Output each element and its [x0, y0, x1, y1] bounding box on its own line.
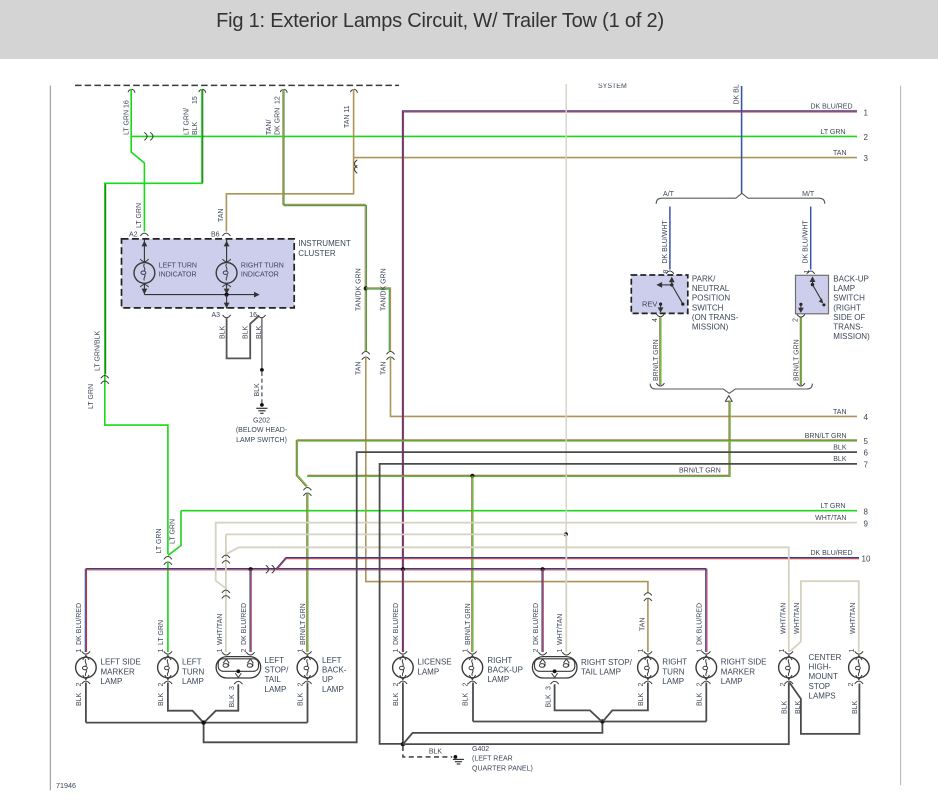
svg-text:LAMP: LAMP	[265, 685, 287, 694]
svg-text:DK BLU/RED: DK BLU/RED	[533, 603, 540, 645]
svg-text:LAMP: LAMP	[417, 667, 439, 676]
svg-text:TAN 11: TAN 11	[344, 105, 351, 128]
junction node on TAN/DK GRN	[364, 286, 368, 290]
svg-text:DK BL: DK BL	[734, 84, 741, 104]
svg-text:LT GRN/BLK: LT GRN/BLK	[94, 330, 101, 371]
svg-text:2: 2	[298, 683, 305, 687]
svg-text:TAN/: TAN/	[266, 120, 273, 135]
wire LT GRN to left turn lamp pin 1	[167, 562, 169, 652]
svg-text:1: 1	[158, 649, 165, 653]
wire DK BLU/WHT (A/T)	[669, 207, 671, 270]
back-up switch arm	[813, 285, 823, 302]
wire DK BLU/RED drop to left side marker	[84, 569, 86, 652]
svg-text:TAN: TAN	[356, 362, 363, 375]
svg-text:SWITCH: SWITCH	[833, 294, 865, 303]
svg-text:HIGH-: HIGH-	[809, 663, 832, 672]
svg-text:2: 2	[463, 683, 470, 687]
svg-text:BLK: BLK	[795, 700, 802, 714]
svg-text:BRN/LT GRN: BRN/LT GRN	[805, 433, 847, 440]
svg-text:12: 12	[275, 96, 282, 104]
svg-text:BLK: BLK	[76, 692, 83, 706]
svg-text:DK BLU/RED: DK BLU/RED	[810, 550, 852, 557]
wire TAN from pin 11	[226, 89, 353, 232]
svg-text:BRN/LT GRN: BRN/LT GRN	[653, 339, 660, 381]
svg-text:3: 3	[864, 154, 869, 163]
svg-text:POSITION: POSITION	[692, 294, 730, 303]
svg-text:LT GRN: LT GRN	[158, 620, 165, 645]
svg-text:M/T: M/T	[802, 191, 815, 198]
junction right ground group	[600, 719, 604, 723]
svg-text:MARKER: MARKER	[721, 667, 755, 676]
wire WHT/TAN from top of page	[565, 84, 567, 534]
svg-text:2: 2	[158, 683, 165, 687]
svg-text:LAMP: LAMP	[101, 677, 123, 686]
svg-text:6: 6	[864, 449, 869, 458]
wire DK BLU/WHT (M/T)	[810, 207, 812, 270]
svg-text:BLK: BLK	[158, 692, 165, 706]
svg-text:WHT/TAN: WHT/TAN	[815, 515, 846, 522]
svg-text:BLK: BLK	[463, 692, 470, 706]
junction G402 node	[401, 742, 405, 746]
svg-text:RIGHT: RIGHT	[662, 658, 687, 667]
wire LT GRN/BLK from pin 15	[105, 89, 202, 554]
junction WHT/TAN	[564, 532, 568, 536]
park/neutral position switch box	[631, 275, 688, 313]
wire WHT/TAN to right stop/tail pin 1	[565, 534, 567, 652]
wire LT GRN row 8	[181, 510, 857, 512]
lamp left turn	[158, 651, 179, 684]
svg-text:TAIL: TAIL	[265, 675, 282, 684]
wire WHT/TAN cross link	[226, 533, 566, 535]
svg-text:1: 1	[217, 649, 224, 653]
svg-text:LT GRN: LT GRN	[136, 203, 143, 228]
svg-text:DK BLU/WHT: DK BLU/WHT	[662, 220, 669, 264]
svg-text:4: 4	[864, 413, 869, 422]
wire BLK right group link	[403, 723, 603, 744]
svg-text:MISSION): MISSION)	[833, 332, 870, 341]
svg-text:TAN/DK GRN: TAN/DK GRN	[356, 268, 363, 311]
svg-text:TAN/DK GRN: TAN/DK GRN	[380, 268, 387, 311]
svg-text:DK BLU/RED: DK BLU/RED	[241, 603, 248, 645]
svg-text:BLK: BLK	[638, 692, 645, 706]
wire BRN/LT GRN from pin 4	[659, 318, 661, 386]
svg-text:(RIGHT: (RIGHT	[833, 303, 861, 312]
svg-text:BRN/LT GRN: BRN/LT GRN	[679, 468, 721, 475]
wire BLK row 6 to left lamp group	[204, 452, 857, 742]
svg-text:BLK: BLK	[393, 692, 400, 706]
svg-text:7: 7	[864, 460, 869, 469]
svg-text:LAMP: LAMP	[833, 284, 855, 293]
drop to right side marker	[705, 569, 707, 652]
svg-text:A2: A2	[129, 232, 138, 239]
page border left	[49, 86, 51, 791]
inline connector on pin 11 wire	[355, 160, 358, 174]
wire DK BLU/RED row 10	[286, 557, 860, 559]
wire BLK from A3	[227, 316, 260, 359]
svg-text:MARKER: MARKER	[101, 667, 135, 676]
svg-text:TAN: TAN	[380, 362, 387, 375]
svg-text:BLK: BLK	[833, 444, 847, 451]
inline connectors above left stop/tail lamp	[222, 555, 230, 563]
svg-text:2: 2	[533, 649, 540, 653]
wire TAN/DK GRN branch to row 4	[366, 288, 391, 351]
svg-text:LAMP: LAMP	[662, 677, 684, 686]
wire DK BLU/RED diagonal to row 10	[276, 558, 286, 569]
svg-text:TAN: TAN	[833, 409, 846, 416]
pin 15	[199, 89, 206, 93]
svg-text:SWITCH: SWITCH	[692, 303, 724, 312]
svg-text:2: 2	[393, 683, 400, 687]
svg-text:1: 1	[463, 649, 470, 653]
svg-text:2: 2	[638, 683, 645, 687]
svg-text:WHT/TAN: WHT/TAN	[557, 614, 564, 645]
wire BRN/LT GRN from pin 2	[799, 318, 801, 386]
junction and drop to right stop/tail pin 2	[541, 567, 545, 571]
svg-text:2: 2	[76, 683, 83, 687]
svg-text:(ON TRANS-: (ON TRANS-	[692, 313, 739, 322]
svg-text:DK GRN: DK GRN	[275, 108, 282, 135]
svg-text:WHT/TAN: WHT/TAN	[850, 603, 857, 634]
svg-text:BRN/LT GRN: BRN/LT GRN	[465, 603, 472, 645]
right turn indicator	[226, 240, 228, 263]
connector C200 (top dashed line)	[75, 84, 399, 86]
svg-text:10: 10	[862, 554, 871, 563]
svg-text:RIGHT TURN: RIGHT TURN	[241, 262, 284, 269]
wire LT GRN row 8 drop to connector	[168, 511, 181, 556]
svg-text:LT GRN: LT GRN	[88, 384, 95, 409]
lamp left back-up	[297, 651, 318, 684]
svg-text:BLK: BLK	[697, 692, 704, 706]
svg-text:BLK: BLK	[256, 325, 263, 339]
svg-text:RIGHT: RIGHT	[487, 656, 512, 665]
svg-text:DK BLU/RED: DK BLU/RED	[697, 603, 704, 645]
svg-text:BLK: BLK	[192, 121, 199, 135]
svg-text:CLUSTER: CLUSTER	[298, 249, 336, 258]
svg-text:1: 1	[638, 649, 645, 653]
wire TAN row 3	[354, 157, 857, 159]
svg-text:BACK-UP: BACK-UP	[487, 666, 523, 675]
wire BRN/LT GRN row 5	[297, 439, 857, 441]
svg-text:LT GRN: LT GRN	[820, 129, 845, 136]
wire WHT/TAN to left stop/tail pin 1	[225, 534, 227, 652]
cluster internal bus	[144, 294, 256, 296]
svg-text:TURN: TURN	[182, 667, 204, 676]
svg-text:1: 1	[76, 649, 83, 653]
header title bar	[0, 0, 938, 59]
svg-text:1: 1	[697, 649, 704, 653]
lamp center high-mount right	[849, 651, 870, 684]
inline connector on left TAN/DK GRN	[362, 352, 370, 360]
back-up lamp switch box	[796, 275, 829, 314]
svg-text:DK BLU/RED: DK BLU/RED	[393, 603, 400, 645]
wire DK BLU/RED distribution line	[86, 568, 706, 570]
connector pair on row 2	[144, 132, 153, 140]
svg-text:DK BLU/RED: DK BLU/RED	[76, 603, 83, 645]
svg-text:MOUNT: MOUNT	[809, 672, 838, 681]
wire BRN/LT GRN to left back-up lamp	[306, 493, 308, 652]
svg-text:BACK-: BACK-	[322, 666, 347, 675]
svg-text:LEFT: LEFT	[265, 656, 285, 665]
svg-text:2: 2	[780, 683, 787, 687]
svg-text:1: 1	[849, 649, 856, 653]
wire BLK license lamp ground	[402, 683, 404, 745]
svg-text:LICENSE: LICENSE	[417, 658, 451, 667]
svg-text:QUARTER PANEL): QUARTER PANEL)	[472, 765, 533, 772]
svg-text:1: 1	[864, 109, 869, 118]
wire WHT/TAN stub from stop/tail branch	[227, 547, 239, 554]
svg-text:2: 2	[241, 649, 248, 653]
svg-text:INDICATOR: INDICATOR	[159, 272, 197, 279]
svg-text:TURN: TURN	[662, 667, 684, 676]
wire BLK high-mount lamps link	[789, 683, 859, 734]
svg-text:RIGHT STOP/: RIGHT STOP/	[581, 658, 633, 667]
svg-text:2: 2	[697, 683, 704, 687]
wire WHT/TAN feed to center high-mount lamps	[239, 547, 789, 652]
svg-text:STOP/: STOP/	[265, 666, 290, 675]
lamp license	[393, 651, 414, 684]
junction and drop to license lamp	[401, 567, 405, 571]
wire BRN/LT GRN from merge down and left	[307, 401, 729, 476]
svg-text:5: 5	[864, 437, 869, 446]
pin 12	[280, 89, 287, 93]
wire DK BLU from top	[741, 86, 743, 194]
svg-text:LT GRN/: LT GRN/	[184, 108, 191, 135]
wire BLK to left high-mount ground	[403, 682, 789, 744]
svg-text:8: 8	[864, 507, 869, 516]
svg-text:BRN/LT GRN: BRN/LT GRN	[300, 603, 307, 645]
svg-text:DK BLU/WHT: DK BLU/WHT	[803, 220, 810, 264]
svg-text:BLK: BLK	[229, 694, 236, 708]
svg-text:1: 1	[298, 649, 305, 653]
inline connector above left back-up lamp	[303, 488, 311, 496]
ground G202	[260, 403, 264, 407]
svg-text:LEFT: LEFT	[182, 658, 202, 667]
lamp right stop/tail (dual)	[532, 652, 577, 684]
park/neutral switch arm	[661, 284, 672, 286]
svg-text:15: 15	[192, 96, 199, 104]
svg-text:3: 3	[545, 686, 552, 690]
svg-text:SYSTEM: SYSTEM	[598, 83, 627, 90]
wire BLK right ground bus	[473, 721, 706, 723]
svg-text:INSTRUMENT: INSTRUMENT	[298, 239, 351, 248]
svg-text:TAIL LAMP: TAIL LAMP	[581, 668, 621, 677]
svg-text:G402: G402	[472, 746, 489, 753]
instrument cluster box	[122, 239, 295, 308]
svg-text:LAMP SWITCH): LAMP SWITCH)	[236, 437, 287, 444]
svg-text:BLK: BLK	[852, 700, 859, 714]
svg-text:LAMP: LAMP	[322, 685, 344, 694]
wire WHT/TAN row 9	[216, 523, 857, 589]
lamp center high-mount left	[779, 651, 800, 684]
svg-text:(LEFT REAR: (LEFT REAR	[472, 756, 513, 763]
wire BLK dashed to G402	[403, 746, 452, 757]
junction and drop to left stop/tail pin 2	[249, 567, 253, 571]
svg-text:LAMP: LAMP	[182, 677, 204, 686]
wire TAN/DK GRN from pin 12	[283, 89, 365, 351]
svg-text:TAN: TAN	[218, 209, 225, 222]
svg-text:LAMPS: LAMPS	[809, 691, 836, 700]
svg-text:CENTER: CENTER	[809, 653, 842, 662]
merge arrow	[725, 396, 732, 402]
svg-text:LAMP: LAMP	[487, 675, 509, 684]
svg-text:71946: 71946	[56, 781, 76, 790]
lamp left side marker	[76, 651, 97, 684]
splice bracket A/T-M/T	[656, 193, 825, 204]
svg-text:STOP: STOP	[809, 682, 831, 691]
inline connector on LT GRN/BLK wire	[101, 376, 109, 384]
svg-text:BLK: BLK	[298, 692, 305, 706]
svg-text:1: 1	[393, 649, 400, 653]
svg-text:4: 4	[652, 318, 659, 322]
svg-text:2: 2	[792, 318, 799, 322]
wire TAN right turn lamp pin 1	[647, 599, 649, 652]
back-up switch contact from pin 1	[812, 279, 814, 285]
wire BLK from right stop/tail pin 3	[555, 684, 602, 721]
wire WHT/TAN high-mount right branch	[790, 581, 859, 652]
inline connector on DK BLU/RED line	[266, 565, 275, 573]
svg-text:1: 1	[557, 649, 564, 653]
svg-text:RIGHT SIDE: RIGHT SIDE	[721, 658, 767, 667]
svg-text:2: 2	[864, 133, 869, 142]
svg-text:LEFT: LEFT	[322, 656, 342, 665]
svg-text:LT GRN 16: LT GRN 16	[123, 100, 130, 135]
svg-text:LT GRN: LT GRN	[156, 528, 163, 553]
svg-text:WHT/TAN: WHT/TAN	[217, 614, 224, 645]
lamp right side marker	[696, 651, 717, 684]
svg-text:BACK-UP: BACK-UP	[833, 275, 869, 284]
svg-text:TRANS-: TRANS-	[833, 323, 863, 332]
inline connector above right turn lamp	[644, 593, 652, 601]
junction left ground group	[201, 720, 205, 724]
pin 4 park/neutral switch	[656, 314, 664, 317]
wire LT GRN row 2	[131, 135, 857, 137]
pin 2 back-up lamp switch	[797, 314, 805, 317]
svg-text:BLK: BLK	[545, 694, 552, 708]
merge bracket below switches	[650, 384, 812, 394]
svg-text:(BELOW HEAD-: (BELOW HEAD-	[236, 427, 288, 434]
junction to right back-up lamp	[470, 474, 474, 478]
svg-text:9: 9	[864, 519, 869, 528]
svg-text:1: 1	[779, 649, 786, 653]
svg-text:LT GRN: LT GRN	[169, 519, 176, 544]
wire BLK left ground bus	[86, 722, 308, 724]
wire TAN row 4	[391, 357, 858, 416]
svg-text:LT GRN: LT GRN	[820, 503, 845, 510]
svg-text:3: 3	[229, 686, 236, 690]
ground G402	[454, 755, 458, 759]
svg-text:G202: G202	[253, 418, 270, 425]
wire BLK row 7 to G402	[380, 464, 857, 744]
lamp left stop/tail (dual)	[216, 652, 261, 684]
svg-text:LEFT TURN: LEFT TURN	[159, 262, 197, 269]
page border right	[900, 86, 902, 785]
svg-text:SIDE OF: SIDE OF	[833, 313, 865, 322]
svg-text:B6: B6	[211, 232, 220, 239]
wire BLK from pin 16	[261, 318, 263, 368]
pin 16	[128, 89, 135, 93]
svg-text:BRN/LT GRN: BRN/LT GRN	[793, 339, 800, 381]
svg-text:DK BLU/RED: DK BLU/RED	[810, 104, 852, 111]
park/neutral switch contact from pin 8	[671, 279, 673, 285]
svg-text:BLK: BLK	[833, 456, 847, 463]
svg-text:BLK: BLK	[254, 383, 261, 397]
left turn indicator	[143, 240, 145, 263]
wire BLK from right turn lamp	[603, 683, 648, 722]
svg-text:TAN: TAN	[833, 150, 846, 157]
svg-text:PARK/: PARK/	[692, 275, 716, 284]
lamp right back-up	[462, 651, 483, 684]
svg-text:MISSION): MISSION)	[692, 323, 729, 332]
lamp right turn	[638, 651, 659, 684]
svg-text:LEFT SIDE: LEFT SIDE	[101, 658, 141, 667]
svg-text:BLK: BLK	[219, 325, 226, 339]
svg-text:A/T: A/T	[663, 191, 675, 198]
svg-text:NEUTRAL: NEUTRAL	[692, 284, 730, 293]
wire TAN to right turn lamp	[366, 357, 648, 593]
wire BRN/LT GRN row 5 drop to connector	[296, 440, 306, 487]
wire BLK from left stop/tail pin 3	[204, 684, 238, 722]
svg-text:TAN: TAN	[639, 618, 646, 631]
svg-text:WHT/TAN: WHT/TAN	[781, 603, 788, 634]
svg-text:2: 2	[848, 683, 855, 687]
inline connector above left turn lamp	[164, 557, 172, 565]
pin 11	[351, 89, 358, 93]
wire BRN/LT GRN to right back-up lamp	[471, 476, 473, 652]
svg-text:BLK: BLK	[429, 749, 443, 756]
wire LT GRN from pin 16 to cluster A2	[131, 89, 144, 232]
svg-text:BLK: BLK	[242, 325, 249, 339]
wire BLK from left turn lamp	[168, 683, 203, 723]
inline connector on right TAN/DK GRN	[387, 352, 395, 360]
wire DK BLU/RED row 1 and drop to license junction	[402, 111, 857, 569]
svg-text:A3: A3	[211, 312, 220, 319]
svg-text:UP: UP	[322, 675, 333, 684]
svg-text:REV: REV	[642, 299, 657, 308]
back-up switch lower contact	[799, 303, 802, 306]
svg-text:LAMP: LAMP	[721, 677, 743, 686]
svg-text:INDICATOR: INDICATOR	[241, 272, 279, 279]
svg-text:WHT/TAN: WHT/TAN	[794, 603, 801, 634]
svg-text:BLK: BLK	[782, 700, 789, 714]
wire BLK dashed to G202	[261, 372, 263, 403]
